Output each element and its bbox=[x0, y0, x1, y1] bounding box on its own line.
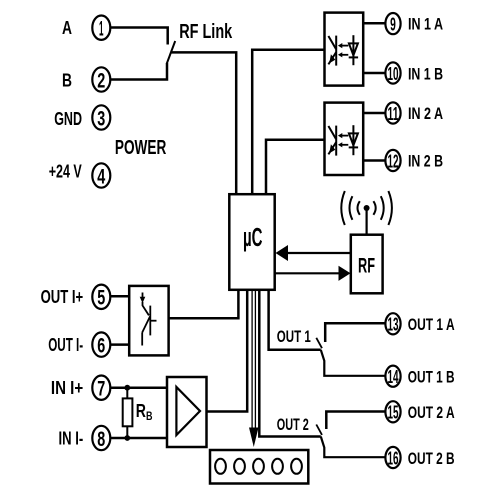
terminal circle 12 bbox=[385, 150, 400, 171]
svg-text:OUT 2 B: OUT 2 B bbox=[408, 449, 455, 468]
arrow uC to RF bbox=[275, 272, 339, 274]
wire opto2 to terminal 11 bbox=[363, 112, 385, 115]
svg-text:13: 13 bbox=[388, 315, 399, 335]
analog output symbol bbox=[140, 293, 157, 346]
terminal circle 15 bbox=[385, 401, 400, 422]
bus arrowhead bbox=[249, 428, 259, 448]
svg-text:+24 V: +24 V bbox=[49, 161, 83, 182]
junction node at RB bottom bbox=[124, 435, 130, 441]
amplifier box bbox=[167, 377, 207, 447]
svg-text:4: 4 bbox=[97, 165, 105, 188]
svg-text:A: A bbox=[62, 17, 72, 38]
resistor RB bbox=[123, 398, 133, 426]
svg-text:1: 1 bbox=[99, 18, 104, 41]
svg-text:OUT 1 B: OUT 1 B bbox=[408, 367, 455, 386]
svg-text:15: 15 bbox=[388, 403, 399, 423]
wire RF link to uC bbox=[172, 52, 237, 194]
microcontroller uC box bbox=[229, 194, 274, 290]
svg-text:12: 12 bbox=[388, 151, 399, 171]
wire opto1 to terminal 10 bbox=[363, 72, 385, 75]
wire uC to OUT2 switch bbox=[259, 290, 321, 437]
wire terminal 7 to amplifier bbox=[111, 386, 168, 389]
DIP switch holes bbox=[215, 459, 302, 474]
svg-text:14: 14 bbox=[388, 367, 399, 387]
svg-text:OUT 2: OUT 2 bbox=[277, 415, 309, 434]
RF link switch arm bbox=[167, 41, 175, 64]
svg-text:OUT 2 A: OUT 2 A bbox=[408, 403, 455, 422]
wire analog out block to uC bbox=[169, 290, 239, 318]
svg-text:IN I-: IN I- bbox=[59, 427, 84, 448]
terminal circle 3 bbox=[92, 105, 110, 129]
terminal circle 7 bbox=[92, 376, 110, 400]
wire opto2 to terminal 12 bbox=[363, 159, 385, 162]
wire B from terminal 2 bbox=[111, 63, 168, 80]
wire uC to OUT1 switch bbox=[269, 290, 321, 350]
svg-text:µC: µC bbox=[243, 224, 263, 252]
antenna dot bbox=[364, 205, 370, 211]
optocoupler U1 box bbox=[325, 13, 364, 86]
antenna waves right bbox=[373, 191, 392, 225]
OUT1 switch arm to terminal 14 bbox=[321, 350, 386, 376]
svg-text:RF Link: RF Link bbox=[179, 20, 232, 43]
svg-text:RF: RF bbox=[358, 254, 375, 277]
resistor RB stubs bbox=[126, 388, 128, 399]
amplifier triangle bbox=[176, 387, 200, 435]
antenna waves left bbox=[341, 191, 360, 225]
wire terminal 5 to analog out block bbox=[111, 295, 130, 298]
optocoupler U1 LED bbox=[349, 35, 358, 65]
OUT1 switch tick bbox=[316, 338, 322, 348]
wire amplifier to uC bbox=[207, 290, 248, 412]
wire terminal 6 to analog out block bbox=[111, 343, 130, 346]
terminal circle 14 bbox=[385, 366, 400, 387]
OUT2 contact stub to terminal 15 bbox=[326, 412, 385, 430]
wire opto1 to terminal 9 bbox=[363, 22, 385, 25]
svg-text:10: 10 bbox=[388, 64, 399, 84]
terminal circle 8 bbox=[92, 426, 110, 450]
terminal circle 4 bbox=[92, 163, 110, 187]
svg-text:GND: GND bbox=[54, 108, 82, 129]
svg-text:6: 6 bbox=[97, 334, 105, 357]
OUT1 contact stub to terminal 13 bbox=[325, 323, 385, 342]
svg-text:OUT I+: OUT I+ bbox=[41, 286, 84, 307]
wire A from terminal 1 bbox=[111, 28, 168, 45]
terminal circle 13 bbox=[385, 313, 400, 334]
svg-text:16: 16 bbox=[388, 448, 399, 468]
svg-text:IN 1 B: IN 1 B bbox=[408, 64, 443, 83]
svg-text:8: 8 bbox=[97, 428, 105, 451]
svg-text:IN I+: IN I+ bbox=[51, 377, 83, 398]
svg-text:B: B bbox=[62, 69, 72, 90]
terminal circle 9 bbox=[385, 13, 400, 34]
svg-text:R: R bbox=[136, 400, 146, 421]
svg-text:IN 2 A: IN 2 A bbox=[408, 104, 443, 123]
svg-text:11: 11 bbox=[388, 104, 399, 124]
RF module box bbox=[351, 235, 383, 294]
svg-text:OUT 1: OUT 1 bbox=[277, 327, 311, 346]
optocoupler U2 light arrows bbox=[338, 133, 348, 147]
svg-text:OUT I-: OUT I- bbox=[48, 334, 83, 355]
bus uC to DIP block (double line) bbox=[252, 290, 255, 428]
terminal circle 5 bbox=[92, 285, 110, 309]
optocoupler U1 light arrows bbox=[338, 43, 348, 57]
terminal circle 6 bbox=[92, 332, 110, 356]
antenna mast bbox=[366, 208, 368, 235]
terminal circle 1 bbox=[92, 16, 110, 40]
analog output block bbox=[129, 286, 168, 356]
OUT2 switch tick bbox=[316, 425, 322, 435]
svg-text:5: 5 bbox=[97, 287, 105, 310]
terminal circle 2 bbox=[92, 67, 110, 91]
svg-text:9: 9 bbox=[390, 14, 396, 34]
terminal circle 16 bbox=[385, 447, 400, 468]
svg-text:7: 7 bbox=[97, 378, 105, 401]
svg-text:OUT 1 A: OUT 1 A bbox=[408, 315, 455, 334]
DIP switch block bbox=[210, 450, 308, 484]
arrow RF to uC bbox=[287, 252, 351, 254]
terminal circle 10 bbox=[385, 62, 400, 83]
svg-text:3: 3 bbox=[97, 107, 105, 130]
terminal circle 11 bbox=[385, 102, 400, 123]
wire terminal 8 to amplifier bbox=[111, 437, 168, 440]
svg-text:IN 1 A: IN 1 A bbox=[408, 15, 443, 34]
OUT2 switch arm to terminal 16 bbox=[321, 437, 386, 458]
junction node at RB top bbox=[124, 385, 130, 391]
svg-text:B: B bbox=[146, 409, 153, 423]
optocoupler U2 LED bbox=[349, 125, 358, 155]
optocoupler U1 phototransistor bbox=[328, 36, 336, 66]
svg-text:IN 2 B: IN 2 B bbox=[408, 152, 443, 171]
wire uC to optocoupler 1 bbox=[252, 50, 324, 194]
wire uC to optocoupler 2 bbox=[266, 140, 325, 194]
svg-text:POWER: POWER bbox=[115, 136, 167, 159]
svg-text:2: 2 bbox=[97, 69, 105, 92]
optocoupler U2 box bbox=[325, 103, 364, 175]
optocoupler U2 phototransistor bbox=[328, 126, 336, 156]
